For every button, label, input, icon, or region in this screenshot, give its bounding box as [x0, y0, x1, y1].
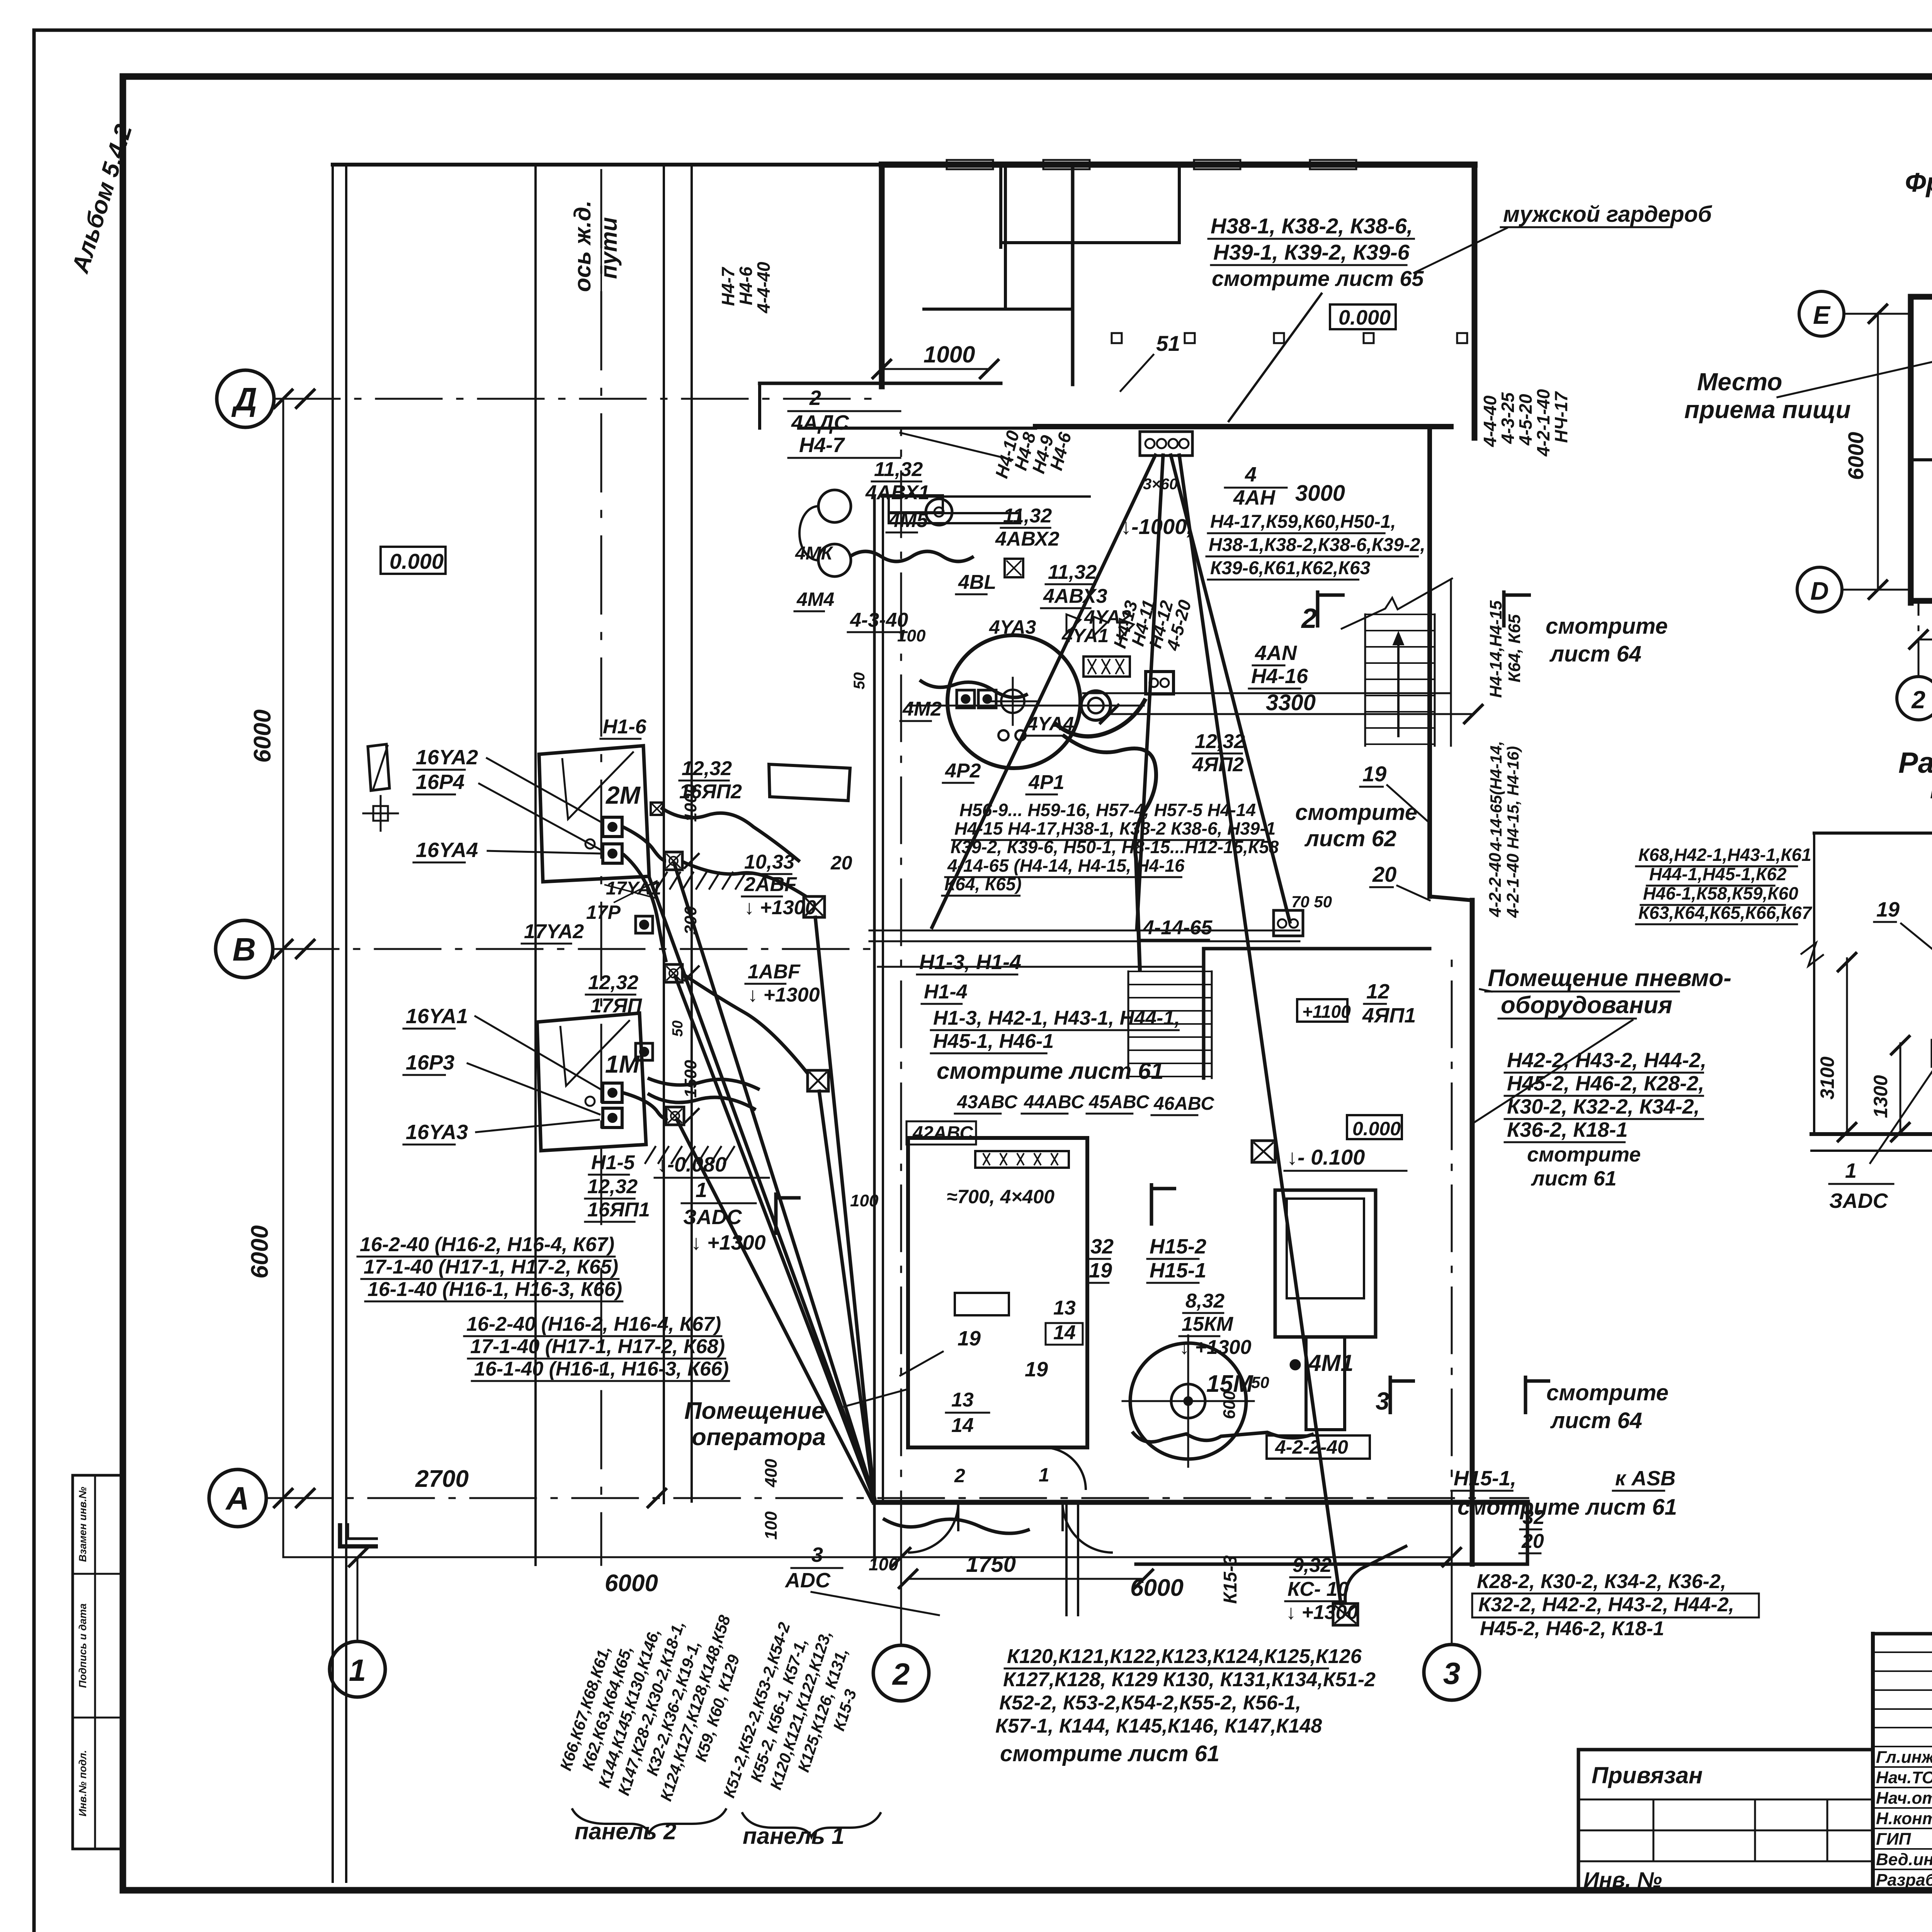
svg-text:4P1: 4P1 [1028, 771, 1065, 794]
svg-text:↓ +1300: ↓ +1300 [748, 984, 820, 1006]
svg-text:КС- 10: КС- 10 [1287, 1578, 1349, 1600]
svg-text:Н38-1, К38-2, К38-6,: Н38-1, К38-2, К38-6, [1211, 214, 1413, 238]
wall partition room2 horizontal [924, 308, 1073, 311]
svg-text:0.000: 0.000 [1352, 1118, 1401, 1139]
svg-text:К57-1, К144, К145,К146, К147,К: К57-1, К144, К145,К146, К147,К148 [995, 1715, 1322, 1737]
cable fan 4АН 1 [932, 455, 1155, 927]
svg-text:11,32: 11,32 [1048, 561, 1097, 583]
svg-text:К39-6,К61,К62,К63: К39-6,К61,К62,К63 [1210, 558, 1371, 578]
wall partition room2 vertical b [1004, 165, 1007, 309]
wire bundle to 4ЯП2 [1055, 699, 1146, 736]
svg-text:ЗАDC: ЗАDC [683, 1206, 742, 1229]
svg-text:+1100: +1100 [1302, 1002, 1351, 1022]
hooks row in cloakroom [1112, 333, 1122, 343]
svg-text:17YA2: 17YA2 [524, 920, 584, 943]
svg-text:Н45-2, Н46-2, К28-2,: Н45-2, Н46-2, К28-2, [1507, 1072, 1704, 1095]
fragment axis 2 circle [1897, 677, 1932, 720]
svg-text:смотрите лист 65: смотрите лист 65 [1212, 266, 1424, 291]
svg-text:16-1-40 (Н16-1, Н16-3, К66): 16-1-40 (Н16-1, Н16-3, К66) [367, 1278, 622, 1301]
svg-text:100: 100 [762, 1511, 781, 1540]
cable fan 4АН long [1179, 455, 1341, 1604]
svg-text:Н4-16: Н4-16 [1251, 665, 1308, 688]
door arc 1 [908, 1502, 958, 1553]
leader 16YA1 [475, 1016, 601, 1090]
svg-text:6000: 6000 [1844, 432, 1868, 480]
svg-text:4АВХ1: 4АВХ1 [865, 481, 930, 504]
svg-text:3: 3 [811, 1543, 823, 1566]
leader 16YA2 [487, 758, 603, 823]
fragment leader Место [1777, 350, 1932, 397]
junction box 4АН [1140, 432, 1192, 456]
svg-text:17-1-40 (Н17-1, Н17-2, К68): 17-1-40 (Н17-1, Н17-2, К68) [470, 1335, 725, 1358]
svg-text:2: 2 [1301, 603, 1317, 634]
grid axis А circle [209, 1469, 266, 1527]
wall long horizontal y1108 [799, 427, 1036, 430]
stair break diagonal [1341, 578, 1453, 629]
flag markers 4YA [1066, 614, 1080, 634]
fragment axis D circle [1797, 567, 1842, 612]
section leader ЗАDC [1870, 1067, 1932, 1163]
panel 2М outline [539, 746, 649, 882]
stairs arrow upper [1397, 636, 1400, 736]
svg-text:4-2-2-40: 4-2-2-40 [1275, 1436, 1348, 1458]
wall dock edge y1285 [882, 495, 1090, 498]
machine 4М1 lower [1306, 1337, 1345, 1430]
svg-text:1750: 1750 [966, 1552, 1016, 1577]
svg-text:Н4-14,Н4-15: Н4-14,Н4-15 [1486, 600, 1505, 698]
svg-text:45АВС: 45АВС [1088, 1092, 1150, 1112]
leader АDC [811, 1592, 939, 1615]
leader 4АДС [900, 433, 1012, 460]
svg-text:К63,К64,К65,К66,К67: К63,К64,К65,К66,К67 [1638, 903, 1813, 923]
svg-text:100: 100 [897, 626, 926, 645]
fragment axis Е line [1844, 313, 1913, 315]
section mark 3 a [1390, 1376, 1415, 1414]
svg-text:В: В [233, 931, 256, 968]
leader to operator room [844, 1389, 908, 1406]
machine 4М1 inner [1287, 1199, 1364, 1298]
svg-text:Помещение: Помещение [684, 1398, 825, 1424]
svg-text:4: 4 [1245, 463, 1257, 486]
svg-text:К15-3: К15-3 [1220, 1555, 1241, 1604]
svg-text:19: 19 [1025, 1358, 1048, 1381]
svg-text:100: 100 [869, 1554, 898, 1574]
wire dock1 onward [682, 862, 806, 896]
svg-text:НЧ-17: НЧ-17 [1551, 391, 1571, 443]
grid axis 1 circle [330, 1641, 385, 1697]
svg-text:11,32: 11,32 [874, 458, 923, 481]
svg-text:Гл.инж.: Гл.инж. [1876, 1748, 1932, 1767]
svg-text:12: 12 [1366, 980, 1389, 1003]
fragment wall left [1908, 297, 1914, 603]
wall top site line [333, 163, 882, 167]
svg-text:Нач.ТО: Нач.ТО [1876, 1768, 1932, 1787]
svg-text:14: 14 [951, 1414, 974, 1437]
machine 15М hub [1171, 1384, 1205, 1418]
svg-text:Нач.отд.: Нач.отд. [1876, 1789, 1932, 1808]
cable tray line 1 [869, 930, 1299, 932]
svg-text:панель 1: панель 1 [743, 1823, 844, 1849]
svg-text:D: D [1810, 577, 1829, 605]
svg-text:1АВF: 1АВF [748, 961, 801, 983]
svg-text:1М: 1М [605, 1050, 640, 1078]
door arc 2 [1063, 1502, 1113, 1553]
svg-text:13: 13 [1053, 1297, 1076, 1319]
svg-text:16-1-40 (Н16-1, Н16-3, К66): 16-1-40 (Н16-1, Н16-3, К66) [474, 1358, 729, 1380]
svg-text:19: 19 [1362, 762, 1386, 786]
elevation box +1100 [1297, 999, 1347, 1022]
svg-text:1300: 1300 [1870, 1075, 1891, 1118]
svg-text:70 50: 70 50 [1291, 893, 1332, 911]
svg-text:50: 50 [670, 1020, 686, 1037]
panel symbol 16ЯП2 box [769, 764, 850, 801]
svg-text:17Р: 17Р [586, 901, 621, 923]
wall left of cloakroom block [879, 165, 885, 386]
svg-text:4М5: 4М5 [888, 509, 928, 532]
svg-text:14: 14 [1053, 1321, 1076, 1344]
svg-text:12,32: 12,32 [587, 1175, 638, 1198]
margin stamp cells [73, 1475, 123, 1849]
cable fan 4АН 2 [1137, 455, 1163, 930]
svg-text:АDC: АDC [784, 1569, 831, 1592]
svg-text:4-4-40: 4-4-40 [1480, 395, 1500, 447]
section top slab [1814, 832, 1932, 835]
cable from 15М [1132, 1432, 1314, 1442]
svg-text:лист 64: лист 64 [1550, 1408, 1642, 1433]
cable diagonal 3 [677, 1120, 872, 1501]
panel 2М connectors [603, 817, 622, 837]
svg-text:Разраб.: Разраб. [1876, 1871, 1932, 1889]
svg-text:16-2-40 (Н16-2, Н16-4, К67): 16-2-40 (Н16-2, Н16-4, К67) [466, 1313, 721, 1335]
section mark 2 right [1504, 590, 1531, 628]
brace panel 1 [742, 1812, 881, 1837]
svg-text:Е: Е [1813, 301, 1831, 329]
leader 16Р4 [479, 784, 601, 850]
svg-text:К127,К128, К129 К130, К131,К13: К127,К128, К129 К130, К131,К134,К51-2 [1003, 1668, 1376, 1691]
wall partition vestibule left [999, 165, 1002, 247]
svg-text:16ЯП1: 16ЯП1 [587, 1199, 650, 1221]
svg-text:4МК: 4МК [795, 543, 834, 564]
svg-text:4YA4: 4YA4 [1027, 713, 1074, 735]
svg-text:16-2-40 (Н16-2, Н16-4, К67): 16-2-40 (Н16-2, Н16-4, К67) [360, 1233, 614, 1256]
svg-text:смотрите лист 61: смотрите лист 61 [1458, 1495, 1677, 1520]
svg-text:4YA3: 4YA3 [989, 616, 1036, 638]
svg-text:К68,Н42-1,Н43-1,К61: К68,Н42-1,Н43-1,К61 [1638, 845, 1811, 865]
svg-text:20: 20 [1521, 1530, 1544, 1553]
wall top of cloakroom block [882, 162, 1475, 168]
svg-text:Н15-1: Н15-1 [1150, 1259, 1206, 1282]
leader 16YA3 [476, 1120, 599, 1132]
machine 4М1 base box [1267, 1435, 1370, 1459]
svg-text:лист 62: лист 62 [1304, 826, 1396, 851]
wall left of middle hall [873, 497, 876, 1564]
junction box above machine [1083, 656, 1130, 677]
svg-text:3: 3 [1443, 1656, 1461, 1690]
section leader 19 [1901, 923, 1932, 958]
brace panel 2 [572, 1808, 726, 1833]
svg-text:Взамен инв.№: Взамен инв.№ [77, 1487, 88, 1562]
section break mark left [1801, 943, 1824, 966]
machine bottom terminals [998, 730, 1009, 740]
svg-text:Д: Д [231, 381, 257, 417]
wire 2М to dock2 [623, 854, 666, 962]
section dim line 1300 [1900, 1043, 1901, 1134]
dock junction box 1 [665, 852, 682, 870]
svg-text:8,32: 8,32 [1185, 1290, 1225, 1312]
svg-text:17-1-40 (Н17-1, Н17-2, К65): 17-1-40 (Н17-1, Н17-2, К65) [364, 1256, 618, 1278]
svg-text:Н39-1, К39-2, К39-6: Н39-1, К39-2, К39-6 [1213, 240, 1410, 264]
junction square A [804, 896, 825, 917]
svg-text:М1:100: М1:100 [1930, 777, 1932, 804]
svg-text:4-14-65(Н4-14,: 4-14-65(Н4-14, [1487, 741, 1505, 852]
axis Д line [274, 398, 881, 400]
svg-text:2: 2 [954, 1465, 965, 1486]
bottom dimension line [283, 1556, 1452, 1558]
svg-text:12,32: 12,32 [588, 971, 638, 994]
leader pneumo [1474, 1020, 1633, 1122]
svg-text:Фрагмент плана № 1: Фрагмент плана № 1 [1905, 167, 1932, 197]
svg-text:1000: 1000 [681, 784, 700, 822]
section mark 3 b [1526, 1376, 1550, 1414]
svg-text:19: 19 [1876, 898, 1900, 921]
svg-text:К120,К121,К122,К123,К124,К125,: К120,К121,К122,К123,К124,К125,К126 [1007, 1645, 1362, 1668]
svg-text:Н1-6: Н1-6 [603, 716, 647, 738]
svg-text:Инв. №: Инв. № [1583, 1867, 1662, 1892]
svg-text:оборудования: оборудования [1501, 992, 1672, 1019]
svg-text:2: 2 [892, 1657, 910, 1691]
wire dock2 onward [682, 974, 808, 1074]
svg-text:ГИП: ГИП [1876, 1830, 1912, 1849]
panel 1М outline [537, 1013, 646, 1151]
svg-text:1000: 1000 [923, 342, 975, 367]
section left edge [1813, 833, 1815, 1132]
svg-text:Н44-1,Н45-1,К62: Н44-1,Н45-1,К62 [1649, 864, 1787, 884]
axis В line [273, 948, 875, 950]
cable fan 4АН 3 [1171, 455, 1290, 922]
svg-text:4BL: 4BL [958, 571, 996, 594]
fragment bottom dim line [1918, 639, 1932, 641]
svg-text:4-2-1-40: 4-2-1-40 [1533, 389, 1553, 457]
elevation box 0.000 cloakroom [1330, 304, 1396, 329]
dimension line 3300 [1109, 713, 1473, 715]
svg-text:К32-2, Н42-2, Н43-2, Н44-2,: К32-2, Н42-2, Н43-2, Н44-2, [1478, 1594, 1734, 1616]
axis А line [266, 1497, 1528, 1499]
svg-text:20: 20 [1372, 862, 1396, 886]
svg-text:15КМ: 15КМ [1182, 1313, 1234, 1335]
svg-text:13: 13 [951, 1389, 974, 1411]
svg-text:20: 20 [830, 852, 852, 874]
wall partition room2 vertical [1071, 165, 1075, 384]
svg-text:4АВХ3: 4АВХ3 [1043, 585, 1107, 607]
svg-text:1: 1 [349, 1653, 366, 1687]
section mark 1 low [776, 1192, 801, 1235]
svg-text:50: 50 [1251, 1373, 1269, 1391]
svg-text:4YA1: 4YA1 [1061, 625, 1109, 646]
svg-text:6000: 6000 [605, 1570, 658, 1597]
cable bottom run [883, 1519, 1030, 1533]
wire 1М to dock3 [623, 1093, 668, 1119]
section floor [1811, 1132, 1932, 1136]
machine circle 4P [947, 635, 1080, 768]
wire 2М to dock1 [623, 827, 666, 861]
svg-text:4АN: 4АN [1255, 641, 1297, 665]
junction at КС-10 [1333, 1604, 1358, 1625]
leader to cloakroom [1229, 294, 1321, 421]
svg-text:Разрез: Разрез [1898, 747, 1932, 779]
svg-text:19: 19 [957, 1327, 981, 1350]
mounting rail [889, 513, 1020, 523]
rail 2 [663, 165, 665, 1503]
cable post symbol [368, 744, 389, 791]
svg-text:1: 1 [1845, 1159, 1857, 1182]
svg-text:50: 50 [851, 672, 868, 690]
svg-text:А: А [225, 1480, 250, 1517]
junction square C [1005, 559, 1023, 577]
wall bottom outer [1136, 1563, 1527, 1566]
svg-text:16Р4: 16Р4 [416, 770, 464, 794]
axis 2 line [900, 1557, 902, 1645]
wall left of pneumatics room [1202, 949, 1206, 1078]
svg-text:мужской гардероб: мужской гардероб [1503, 202, 1713, 227]
machine cross circle [1001, 690, 1024, 713]
svg-text:Н42-2, Н43-2, Н44-2,: Н42-2, Н43-2, Н44-2, [1507, 1049, 1706, 1072]
corridor line [878, 966, 1204, 968]
svg-text:2: 2 [1911, 686, 1925, 714]
svg-text:4-3-25: 4-3-25 [1498, 392, 1518, 444]
svg-text:Помещение пневмо-: Помещение пневмо- [1488, 965, 1731, 992]
section dim line 3100 [1846, 958, 1848, 1134]
svg-text:1: 1 [1039, 1464, 1049, 1486]
stairs upper right [1365, 614, 1435, 615]
leader 16YA4 [488, 851, 600, 854]
svg-text:2М: 2М [605, 781, 641, 809]
svg-text:↓ +1300: ↓ +1300 [744, 896, 816, 919]
svg-text:16YA2: 16YA2 [416, 746, 478, 769]
wall partition vestibule right [1178, 165, 1181, 243]
operator room desk [955, 1293, 1009, 1315]
cable bottom right [1345, 1546, 1407, 1604]
railway centerline [600, 170, 602, 1565]
svg-text:К36-2, К18-1: К36-2, К18-1 [1507, 1118, 1628, 1141]
svg-text:Н4-6: Н4-6 [736, 267, 756, 305]
title block left part [1578, 1748, 1873, 1752]
junction box on tray [1274, 910, 1303, 936]
svg-text:0.000: 0.000 [389, 549, 444, 573]
svg-text:лист 64: лист 64 [1549, 641, 1641, 667]
grid axis 2 circle [873, 1645, 929, 1701]
junction box 4ЯП1 [1252, 1141, 1275, 1162]
svg-text:↓-1000,: ↓-1000, [1121, 514, 1193, 539]
svg-text:Вед.инж: Вед.инж [1876, 1850, 1932, 1869]
svg-text:Н46-1,К58,К59,К60: Н46-1,К58,К59,К60 [1643, 883, 1798, 903]
cable line to stairs [1083, 692, 1451, 694]
svg-text:Альбом 5,4.2: Альбом 5,4.2 [67, 121, 138, 277]
svg-text:4АВХ2: 4АВХ2 [995, 528, 1060, 550]
svg-text:Н4-15, Н4-16): Н4-15, Н4-16) [1504, 746, 1522, 849]
svg-text:4М1: 4М1 [1308, 1350, 1354, 1376]
svg-text:1: 1 [696, 1179, 707, 1202]
machine 4М1 outer [1275, 1190, 1376, 1337]
svg-text:пути: пути [596, 217, 622, 279]
svg-text:≈700, 4×400: ≈700, 4×400 [947, 1186, 1054, 1207]
svg-text:16YA1: 16YA1 [406, 1005, 468, 1028]
wall step to pneumatics room [1430, 896, 1472, 900]
svg-text:К52-2, К53-2,К54-2,К55-2, К56-: К52-2, К53-2,К54-2,К55-2, К56-1, [999, 1692, 1301, 1714]
wire panel2М to junction [661, 808, 800, 862]
svg-text:9,32: 9,32 [1293, 1554, 1332, 1577]
fragment axis D line [1842, 589, 1913, 591]
svg-text:19: 19 [1089, 1259, 1112, 1282]
section mark 1 b [1151, 1183, 1176, 1226]
svg-text:3100: 3100 [1816, 1056, 1838, 1099]
wall top of pneumatics room [1204, 947, 1430, 951]
svg-text:4М2: 4М2 [902, 698, 942, 720]
wire to machine [920, 680, 1028, 697]
title block label rows [1873, 1766, 1932, 1768]
svg-text:300: 300 [681, 906, 700, 935]
site edge double line [332, 165, 334, 1882]
svg-text:Н4-7: Н4-7 [799, 434, 845, 457]
svg-text:Н1-4: Н1-4 [924, 981, 968, 1003]
svg-text:2: 2 [809, 386, 821, 410]
operator room junction strip [975, 1151, 1069, 1168]
svg-text:4-4-40: 4-4-40 [753, 262, 774, 313]
wall heavy y1104 [1036, 424, 1451, 429]
junction box 17Р [636, 916, 653, 933]
svg-text:лист 61: лист 61 [1531, 1167, 1617, 1190]
svg-text:смотрите: смотрите [1527, 1143, 1641, 1166]
svg-text:44АВС: 44АВС [1024, 1092, 1085, 1112]
leader 16Р3 [468, 1063, 600, 1114]
svg-text:ЗАDC: ЗАDC [1829, 1189, 1888, 1213]
svg-text:к АSВ: к АSВ [1615, 1467, 1675, 1490]
grid axis 3 circle [1424, 1645, 1480, 1700]
wire 1М pair [648, 1094, 756, 1110]
machine 15М circle [1130, 1343, 1246, 1459]
svg-text:6000: 6000 [249, 709, 276, 763]
svg-text:6000: 6000 [247, 1225, 273, 1279]
svg-text:12,32: 12,32 [1195, 730, 1245, 753]
svg-text:Н4-15 Н4-17,Н38-1, К38-2 К38-6: Н4-15 Н4-17,Н38-1, К38-2 К38-6, Н39-1 [954, 818, 1276, 838]
svg-text:3: 3 [1376, 1387, 1389, 1415]
wall right of building upper [1472, 165, 1478, 438]
svg-text:4М4: 4М4 [796, 588, 834, 610]
door stems [957, 1502, 959, 1530]
machine inner circle [1081, 691, 1111, 720]
wall below cloakroom left [760, 382, 1001, 385]
svg-text:Н4-7: Н4-7 [718, 267, 738, 306]
svg-text:↓ +1300: ↓ +1300 [1179, 1336, 1252, 1359]
svg-text:4P2: 4P2 [945, 760, 981, 782]
hatch below 2М panel [657, 872, 667, 889]
svg-text:51: 51 [1156, 331, 1180, 355]
svg-text:12,32: 12,32 [682, 757, 732, 780]
window marks on top wall [947, 160, 993, 169]
title block thin rows [1873, 1651, 1932, 1653]
svg-text:4-5-20: 4-5-20 [1515, 394, 1536, 446]
svg-text:Н45-1, Н46-1: Н45-1, Н46-1 [933, 1030, 1054, 1053]
title block top line [1873, 1632, 1932, 1636]
svg-text:Подпись и дата: Подпись и дата [77, 1604, 88, 1688]
operator room walls [908, 1138, 1087, 1447]
svg-text:4АДС: 4АДС [791, 411, 849, 434]
svg-text:4-14-65 (Н4-14, Н4-15, Н4-16: 4-14-65 (Н4-14, Н4-15, Н4-16 [947, 855, 1185, 876]
svg-text:3000: 3000 [1295, 481, 1345, 506]
svg-text:0.000: 0.000 [1338, 306, 1391, 329]
wall right of pneumatics room [1470, 900, 1475, 1564]
svg-text:16YA4: 16YA4 [416, 838, 478, 862]
svg-text:2АВF: 2АВF [744, 873, 797, 896]
